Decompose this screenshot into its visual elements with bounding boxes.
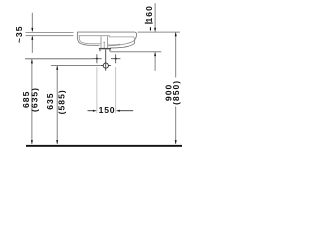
extension line left: [96, 67, 98, 113]
basin rim top: [77, 32, 136, 34]
dim 160 arrow up: [154, 52, 156, 56]
dim 635 arrow up: [56, 66, 58, 70]
fixing hole left diamond: [92, 54, 101, 63]
drain flange right stub: [109, 49, 111, 51]
dim 160 tilde mark: [150, 27, 151, 30]
svg-text:160: 160: [144, 5, 154, 22]
rim extension line right: [138, 31, 180, 33]
leader line 685: [25, 58, 92, 60]
dim ~35 line: [31, 13, 33, 53]
svg-text:(585): (585): [56, 89, 66, 114]
basin inner rim line: [79, 36, 135, 40]
basin left edge: [77, 32, 99, 46]
water connection vertical line: [105, 49, 107, 70]
svg-text:150: 150: [99, 105, 116, 115]
dim 900 arrow up: [175, 32, 177, 36]
basin right outer wall: [134, 39, 136, 43]
extension line right: [115, 67, 117, 113]
countertop top line: [26, 32, 74, 34]
svg-text:635: 635: [45, 92, 55, 109]
water connection left tick: [101, 65, 103, 67]
svg-text:(635): (635): [29, 87, 39, 112]
dim 900 line lower: [175, 107, 177, 144]
dim 150 left leader: [88, 110, 94, 112]
drain flange: [99, 48, 111, 49]
dim 635 arrow down: [56, 140, 58, 144]
dim 160 bar mark: [145, 22, 153, 23]
countertop bottom line: [26, 35, 74, 37]
water connection right tick: [109, 65, 111, 67]
drain tick: [103, 42, 105, 48]
floor line: [26, 145, 182, 147]
dim 685 line: [31, 59, 33, 144]
dim ~35 arrow up: [31, 36, 33, 40]
basin right outer bottom: [111, 43, 135, 48]
dim 150 right arrow: [116, 110, 120, 112]
dim 685 arrow down: [31, 140, 33, 144]
water connection circle: [103, 63, 108, 68]
svg-text:~35: ~35: [14, 26, 24, 44]
basin inner left wall: [79, 36, 101, 44]
basin right edge: [135, 34, 137, 39]
dim 900 arrow down: [175, 140, 177, 144]
basin right inner bottom: [108, 40, 134, 46]
dim 635 line: [56, 66, 58, 144]
basin inner bottom right: [108, 43, 120, 46]
fixing hole right diamond: [111, 54, 120, 63]
drain right wall: [107, 36, 109, 48]
dim 160 line: [154, 3, 156, 71]
dim ~35 arrow down: [31, 28, 33, 32]
160 reference line: [110, 51, 161, 53]
dim 900 line upper: [175, 32, 177, 77]
dim 685 arrow up: [31, 59, 33, 63]
drain flange left stub: [99, 49, 101, 51]
dim 150 left arrow: [93, 110, 97, 112]
drain left wall: [100, 36, 102, 48]
leader line 635: [51, 65, 101, 67]
dim 160 arrow down: [154, 28, 156, 32]
svg-text:(850): (850): [171, 80, 181, 105]
dim 150 right leader: [119, 110, 133, 112]
